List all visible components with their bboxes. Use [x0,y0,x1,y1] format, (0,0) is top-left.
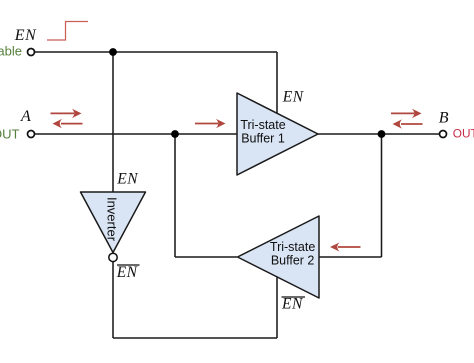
junction on A wire [171,130,179,138]
arrow left at B [393,119,423,129]
tri-state buffer 2 [238,216,320,298]
label EN-bar of buffer 2 [281,296,305,313]
svg-text:EN: EN [116,264,139,281]
tri-state buffer 1 [237,93,318,175]
wire inverter output down [112,262,114,338]
wire buffer2 input horizontal [319,256,382,258]
svg-text:EN: EN [282,88,305,105]
inverter [81,192,146,253]
wire buffer1 enable drop [276,52,278,113]
wire enable vertical to inverter [112,52,114,192]
svg-text:OUT: OUT [453,127,474,141]
svg-text:Buffer 1: Buffer 1 [241,131,285,145]
svg-text:EN: EN [14,27,37,44]
svg-text:B: B [439,110,449,127]
svg-text:Tri-state: Tri-state [270,240,315,254]
svg-text:EN: EN [281,296,304,313]
step waveform symbol [47,22,88,41]
wire top enable horizontal [35,51,278,53]
wire buffer1 output to B [318,133,443,135]
junction on B wire [378,130,386,138]
svg-text:EN: EN [116,171,139,188]
wire A input horizontal [35,133,238,135]
wire bottom enable-bar horizontal [113,337,277,339]
terminal A [28,131,35,138]
svg-text:A: A [20,108,31,125]
svg-text:Tri-state: Tri-state [240,118,285,132]
wire A junction down [174,134,176,257]
arrow right into buffer 1 [195,119,226,129]
svg-text:OUT: OUT [0,126,20,141]
arrow left at A [53,119,83,129]
svg-text:Inverter: Inverter [105,197,120,242]
terminal EN [28,49,35,56]
wire B junction down [381,134,383,257]
inverter output bubble [109,253,117,261]
label EN-bar of inverter [116,264,140,281]
arrow right at B [391,109,422,119]
wire buffer2 output horizontal [175,256,237,258]
arrow right at A [51,109,82,119]
svg-text:Enable: Enable [0,44,22,59]
wire buffer2 enable drop [276,278,278,339]
svg-text:Buffer 2: Buffer 2 [271,254,315,268]
terminal B [440,131,447,138]
arrow left into buffer 2 [330,242,361,251]
junction on enable wire [109,48,117,56]
